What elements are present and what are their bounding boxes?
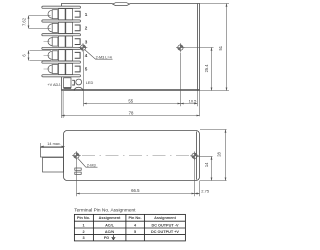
dimension 66.5 [77, 160, 195, 197]
terminal clamp 4 [75, 52, 80, 58]
svg-text:10.5: 10.5 [189, 98, 198, 103]
top edge slot [113, 3, 130, 6]
svg-text:Terminal Pin No. Assignment: Terminal Pin No. Assignment [74, 208, 136, 214]
svg-text:+V ADJ.: +V ADJ. [47, 83, 61, 87]
svg-text:3: 3 [85, 39, 88, 44]
svg-text:78: 78 [129, 111, 134, 116]
mounting hole M3 side left [72, 151, 81, 160]
svg-text:4: 4 [85, 53, 88, 58]
table row 1 [82, 224, 179, 228]
svg-text:2: 2 [85, 26, 88, 31]
svg-text:51: 51 [218, 45, 223, 50]
svg-text:DC OUTPUT +V: DC OUTPUT +V [151, 230, 179, 234]
dimension 78 [62, 91, 200, 118]
svg-text:Assignment: Assignment [154, 216, 176, 220]
terminal clamp 2 [75, 25, 80, 31]
side centerline [82, 155, 191, 157]
dimension 14 max [41, 146, 65, 148]
dimension 55 [84, 52, 181, 107]
table row 2 [82, 230, 179, 234]
svg-text:6: 6 [21, 54, 26, 57]
svg-text:5: 5 [134, 230, 136, 234]
FG ground symbol [112, 235, 116, 239]
dimension 14 side [197, 157, 213, 181]
svg-text:14 max.: 14 max. [47, 142, 61, 146]
svg-text:55: 55 [128, 98, 133, 103]
svg-text:FG: FG [104, 236, 109, 240]
table row 3 [82, 236, 109, 240]
svg-text:Pin No.: Pin No. [128, 216, 141, 220]
svg-text:28: 28 [217, 152, 222, 157]
LED hole [76, 79, 82, 85]
svg-text:4: 4 [134, 224, 137, 228]
dimension 2.75 [195, 181, 200, 197]
svg-text:2-M3: 2-M3 [87, 162, 96, 167]
table grid [74, 214, 185, 241]
side pin studs [75, 168, 81, 174]
callout 2-M3 L=4 [85, 50, 113, 60]
svg-text:66.5: 66.5 [131, 188, 140, 193]
svg-text:25.4: 25.4 [204, 64, 209, 73]
svg-text:2-M3 L=4: 2-M3 L=4 [96, 55, 112, 59]
+V ADJ potentiometer [64, 78, 75, 88]
svg-text:7.62: 7.62 [21, 17, 26, 26]
svg-text:Pin No.: Pin No. [77, 216, 90, 220]
svg-text:2.75: 2.75 [201, 189, 210, 194]
svg-text:2: 2 [82, 230, 84, 234]
pot access notch on bottom edge [74, 87, 83, 90]
terminal screw 2 [48, 22, 73, 33]
table header [77, 216, 177, 220]
dimension 10.5 [181, 103, 198, 105]
terminal clamp 1 [75, 11, 80, 17]
svg-text:Assignment: Assignment [99, 216, 121, 220]
dimension 51 [200, 4, 230, 91]
dimension 7.62 [29, 16, 51, 29]
side view case [64, 131, 200, 181]
dimension 25.4 [185, 48, 230, 91]
terminal screw 3 [44, 36, 73, 47]
side terminal block [41, 148, 64, 173]
terminal block partition bars [42, 6, 81, 77]
svg-text:3: 3 [82, 236, 84, 240]
top view case outline [62, 4, 200, 91]
terminal clamp 3 [75, 39, 80, 45]
mounting hole M3 top view right [176, 43, 185, 52]
svg-text:5: 5 [85, 67, 88, 72]
mounting hole M3 side right [190, 152, 199, 161]
svg-text:14: 14 [204, 162, 209, 167]
terminal screw 4 [44, 50, 73, 61]
callout 2-M3 side [78, 159, 98, 168]
dimension 28 [200, 130, 227, 181]
dimension 6 [29, 51, 52, 61]
terminal screw 5 [44, 63, 73, 74]
svg-text:DC OUTPUT -V: DC OUTPUT -V [152, 224, 179, 228]
mounting hole M3 top view left [79, 43, 88, 52]
svg-text:LED: LED [86, 81, 94, 85]
svg-text:AC/L: AC/L [105, 224, 115, 228]
svg-text:1: 1 [82, 224, 84, 228]
terminal clamp 5 [75, 66, 80, 72]
svg-text:AC/N: AC/N [105, 230, 115, 234]
terminal screw 1 [48, 9, 73, 20]
svg-text:1: 1 [85, 12, 88, 17]
